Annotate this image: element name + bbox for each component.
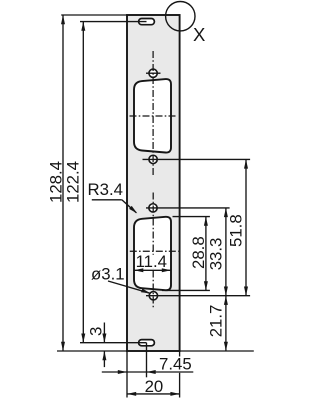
extension line panel bottom right (for 21.7) [180,350,254,352]
dimension line 128.4 [62,15,64,351]
top mounting slot [139,19,155,25]
svg-text:3: 3 [87,327,106,336]
lower cutout bottom screw hole + extension for 51.8/33.3/21.7 [149,292,157,300]
dimension line 20 [127,393,180,395]
dimension line 33.3 [225,208,227,296]
svg-text:R3.4: R3.4 [88,180,123,199]
dimension line 21.7 [225,296,227,351]
extension line slot center vertical (for 7.45) [146,343,148,378]
dimension 11.4 inside lower cutout [135,255,170,268]
centerline horizontal upper cutout [130,115,178,117]
upper cutout top screw hole [149,69,157,77]
upper D-sub cutout [134,79,171,152]
svg-text:ø3.1: ø3.1 [91,264,125,283]
dimension line 28.8 [205,217,207,291]
svg-text:20: 20 [145,377,164,396]
upper cutout bottom screw hole + extension for 51.8 [149,155,157,163]
lower D-sub cutout [134,217,171,290]
svg-text:7.45: 7.45 [159,354,192,373]
svg-text:X: X [193,24,205,45]
svg-text:28.8: 28.8 [189,236,208,269]
lower cutout top screw hole + extension for 33.3 [149,204,157,212]
extension line bottom slot center (for 122.4 / 3) [80,342,147,344]
svg-text:51.8: 51.8 [226,214,245,247]
svg-text:21.7: 21.7 [207,305,226,338]
svg-text:11.4: 11.4 [136,252,167,271]
extension line panel bottom left (for 128.4 / 3) [57,350,127,352]
dimension line 122.4 [82,22,84,343]
extension lines for 28.8 (cutout ends) [173,216,210,218]
extension line panel right edge below (for 20) [179,351,181,357]
extension line panel top (for 128.4) [61,14,127,16]
centerline vertical upper cutout [152,51,154,176]
extension line top slot center (for 122.4) [80,21,147,23]
dimension line 7.45 (outside arrows) [102,371,194,373]
centerline horizontal lower cutout [130,250,179,252]
svg-text:122.4: 122.4 [63,161,82,203]
bottom mounting slot [139,340,155,346]
centerline vertical lower cutout [152,193,154,309]
panel outline [127,15,180,351]
detail circle X [166,2,195,31]
dimension line 51.8 [245,159,247,295]
dimension 3 (outside arrows) [103,323,105,343]
svg-text:33.3: 33.3 [207,238,226,271]
extension line panel left edge below (for 7.45 / 20) [126,351,128,398]
